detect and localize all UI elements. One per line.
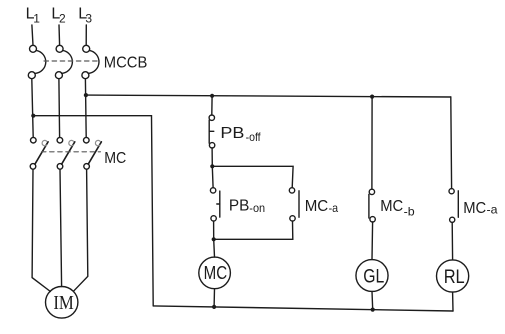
svg-text:PB: PB [229,198,250,215]
svg-text:1: 1 [33,12,40,26]
wire RL branch top [450,97,453,189]
wire MC-b to GL [371,222,374,260]
motor IM [46,287,78,319]
node L3 label [78,6,92,26]
svg-text:GL: GL [363,266,384,288]
contactor MC pole 1 [30,137,48,169]
svg-text:MCCB: MCCB [104,55,148,72]
lamp RL [437,260,469,292]
node junction GL branch tap [370,95,374,99]
node junction MC coil bottom [212,305,216,309]
coil MC [199,257,231,289]
svg-text:-off: -off [246,130,262,144]
pushbutton PB-off (NC) [209,115,215,148]
node L1 label [26,6,41,26]
node junction PB-off tap [210,94,214,98]
contact MC-a auxiliary (seal-in) [289,188,299,221]
wire RL to bottom rail [452,292,454,311]
wire L1 MCCB to MC [32,79,33,138]
svg-text:RL: RL [444,266,465,288]
wire L2 lead-in [58,25,61,45]
wire junction to PB-on [211,166,214,187]
wire motor phase 1 [32,169,50,291]
label MC-b [380,198,415,219]
contact MC-b auxiliary (NC) [369,189,375,222]
wire motor phase 3 [73,169,87,291]
wire GL branch top [371,97,373,190]
wire junction to MC coil [213,239,216,257]
wire left control rail [33,116,153,306]
wire L3 lead-in [85,25,87,45]
MC gang dashed link [42,151,101,153]
contactor MC pole 2 [57,137,75,169]
svg-text:-a: -a [487,202,498,216]
wire L3 MCCB to MC [84,79,87,138]
svg-text:-b: -b [404,205,415,219]
svg-text:IM: IM [53,292,74,314]
node L2 label [51,6,66,26]
wire MC-a to RL [451,222,453,260]
breaker MCCB pole 3 [82,45,99,78]
wire L2 MCCB to MC [58,79,61,138]
svg-text:MC: MC [104,150,126,167]
node junction L1 / left control wire [31,114,35,118]
wire GL to bottom rail [371,291,374,309]
wire PB-off to junction [211,148,213,166]
svg-text:MC: MC [380,198,403,215]
label PB-on [229,198,265,215]
wire MC coil to bottom rail [213,289,215,307]
svg-text:3: 3 [85,12,92,26]
node junction upper connector [210,164,214,168]
breaker MCCB pole 1 [28,45,45,78]
node junction L3 / control rail [84,93,88,97]
svg-text:MC: MC [305,198,329,215]
label PB-off [220,125,261,144]
wire L1 lead-in [32,25,33,45]
label MC-a (seal-in) [305,198,339,215]
pushbutton PB-on (NO) [210,188,219,221]
MCCB gang dashed link [44,60,100,62]
wire PB-on to lower junction [213,221,215,239]
wire motor phase 2 [60,169,62,286]
wire bottom rail [153,306,453,311]
svg-text:-a: -a [329,201,339,215]
wire lower connector to MC-a [214,221,293,239]
node junction lower connector [212,237,216,241]
wire top control rail [86,95,451,97]
wire upper connector to MC-a [212,166,293,187]
label MC-a (RL branch) [463,200,498,217]
breaker MCCB pole 2 [55,45,72,78]
contact MC-a auxiliary (RL branch) [449,189,458,223]
svg-text:MC: MC [204,262,228,283]
svg-text:-on: -on [249,201,265,215]
svg-text:MC: MC [463,200,486,217]
svg-text:2: 2 [59,12,66,26]
wire rail to PB-off [211,96,213,115]
contactor MC pole 3 [84,137,102,169]
svg-text:PB: PB [220,125,244,142]
node junction GL bottom [371,308,375,312]
lamp GL [356,260,388,292]
